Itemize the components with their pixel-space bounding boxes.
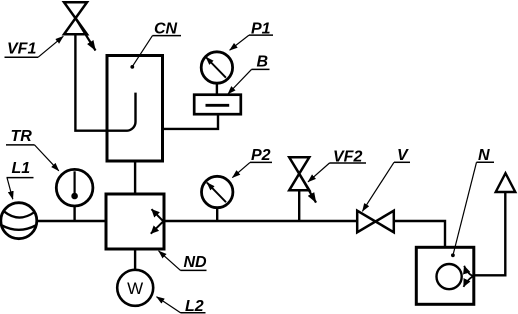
label P2 bbox=[251, 147, 271, 164]
thermometer TR bulb bbox=[71, 193, 78, 200]
ND internal arrows bbox=[152, 209, 164, 221]
valve VF1 bbox=[64, 2, 87, 34]
pump N bbox=[416, 247, 474, 304]
gauge P2 bbox=[202, 176, 233, 207]
svg-text:N: N bbox=[478, 147, 490, 164]
wire CN to ND bbox=[134, 161, 136, 194]
device B bbox=[194, 95, 241, 115]
leader L2 bbox=[157, 297, 181, 313]
label L2 bbox=[185, 298, 204, 314]
leader TR bbox=[35, 145, 59, 171]
VF1 adjustment arrow bbox=[76, 18, 96, 50]
leader P2 bbox=[232, 162, 250, 177]
svg-text:ND: ND bbox=[184, 254, 208, 271]
regulator ND bbox=[106, 194, 164, 249]
svg-text:CN: CN bbox=[154, 20, 178, 37]
svg-text:VF1: VF1 bbox=[7, 41, 36, 58]
leader CN bbox=[133, 36, 153, 66]
leader ND bbox=[159, 251, 181, 271]
vent arrow bbox=[496, 173, 516, 192]
pump N impeller circle bbox=[437, 264, 462, 289]
flow meter L1 bbox=[1, 203, 37, 239]
leader V bbox=[362, 162, 394, 211]
VF2 adjustment arrow bbox=[299, 174, 316, 203]
label ND bbox=[184, 254, 208, 271]
leader B bbox=[228, 69, 252, 94]
wire VF2 stem bbox=[298, 190, 300, 221]
label TR bbox=[11, 128, 33, 145]
wire P2 stem bbox=[216, 208, 218, 221]
wire TR stem bbox=[73, 206, 75, 221]
vessel CN bbox=[107, 56, 163, 162]
label VF2 bbox=[333, 148, 362, 165]
leader N bbox=[453, 162, 476, 253]
label V bbox=[397, 147, 409, 164]
svg-text:L2: L2 bbox=[185, 298, 204, 314]
valve V bbox=[357, 211, 394, 233]
wire main pipe right bbox=[164, 220, 357, 222]
label VF1 bbox=[7, 41, 36, 58]
wire VF1 to CN dip tube bbox=[75, 34, 135, 130]
leader VF2 bbox=[308, 163, 330, 182]
valve VF2 bbox=[289, 157, 309, 190]
label P1 bbox=[251, 20, 271, 37]
wire V to N bbox=[394, 221, 445, 247]
label N bbox=[478, 147, 490, 164]
wire P1 stem bbox=[216, 83, 218, 95]
meter L2 bbox=[117, 270, 153, 306]
svg-text:L1: L1 bbox=[12, 160, 31, 177]
label L1 bbox=[12, 160, 31, 177]
svg-text:W: W bbox=[127, 279, 143, 298]
gauge P1 bbox=[201, 52, 232, 83]
device B inner bar bbox=[206, 104, 230, 107]
leader P1 bbox=[230, 35, 249, 50]
N internal arrows bbox=[464, 266, 473, 276]
leader L1 bbox=[7, 178, 13, 200]
leader VF1 bbox=[38, 36, 63, 57]
svg-text:B: B bbox=[257, 54, 269, 71]
label B bbox=[257, 54, 269, 71]
thermometer TR bbox=[56, 169, 93, 206]
label CN underline bbox=[153, 35, 182, 37]
label CN bbox=[154, 20, 178, 37]
svg-text:P2: P2 bbox=[251, 147, 271, 164]
wire CN to B bbox=[163, 114, 219, 129]
wire ND to L2 bbox=[134, 249, 136, 270]
wire N to vent bbox=[474, 192, 506, 275]
wire main pipe left bbox=[37, 220, 106, 222]
svg-text:TR: TR bbox=[11, 128, 33, 145]
